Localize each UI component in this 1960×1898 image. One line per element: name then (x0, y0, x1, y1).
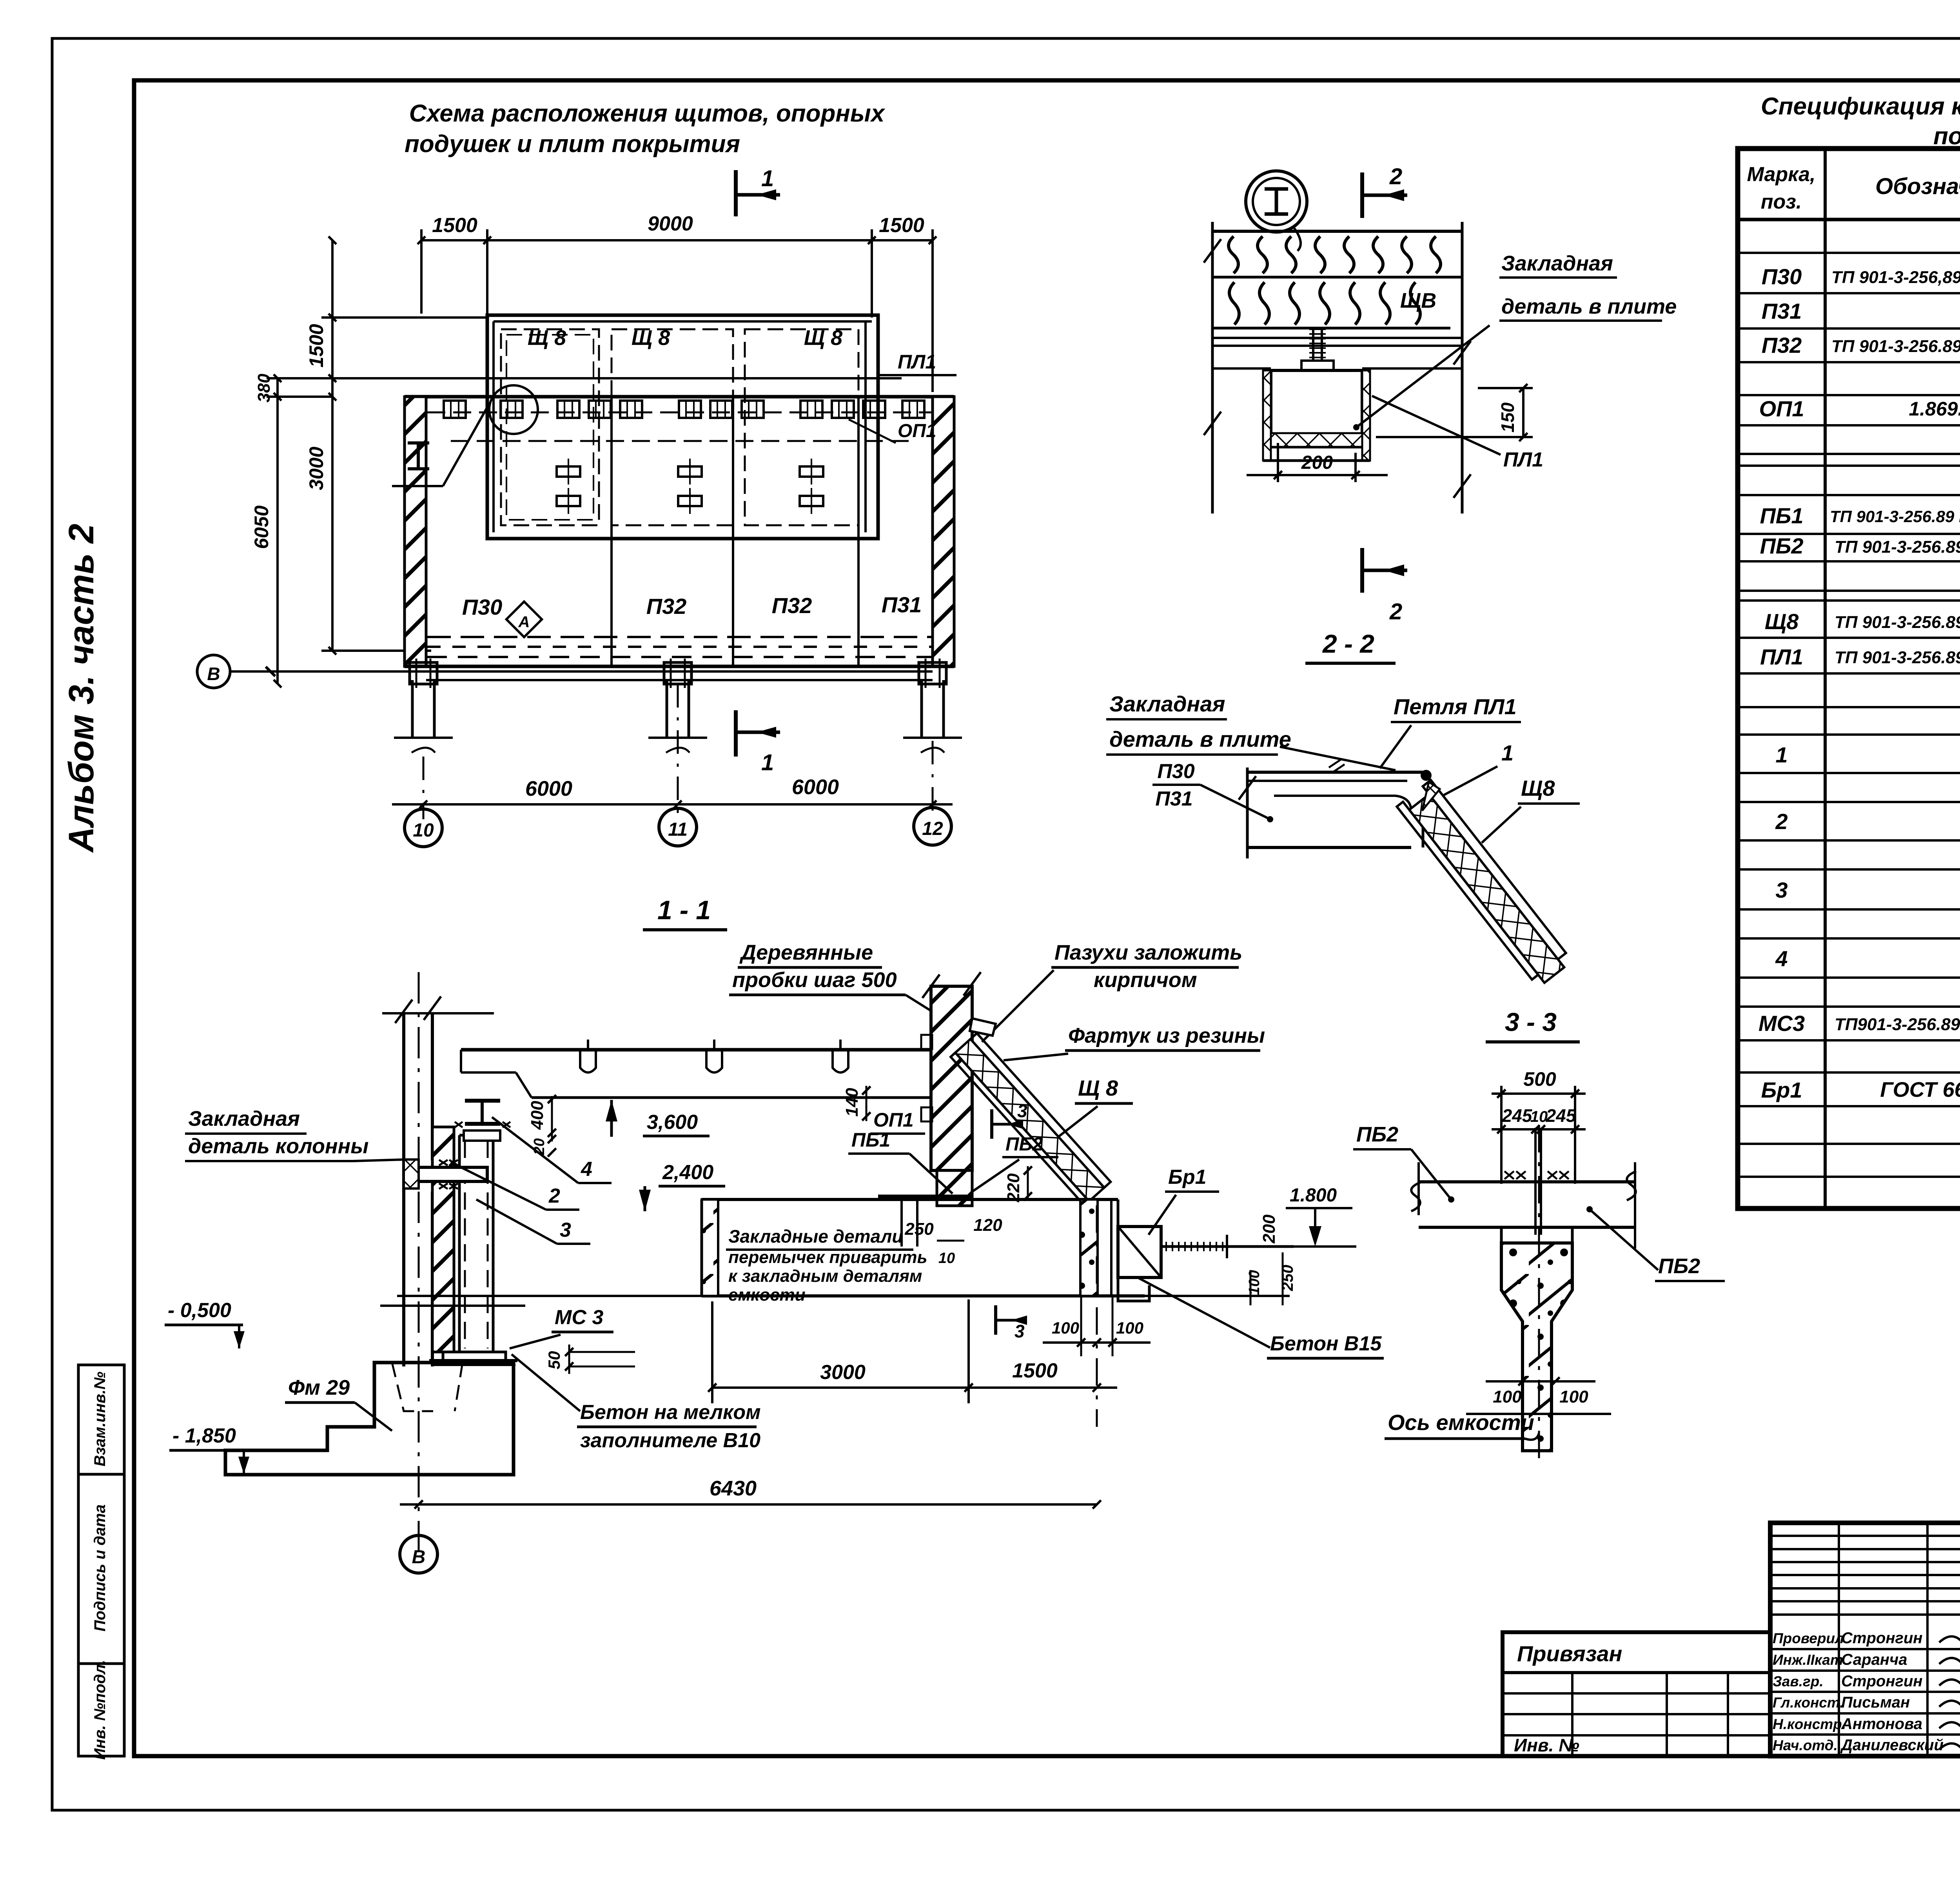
svg-text:100: 100 (1116, 1319, 1143, 1337)
detail I leader (1294, 227, 1301, 251)
svg-text:Фартук из резины: Фартук из резины (1068, 1024, 1265, 1047)
floor second line at column (380, 1305, 525, 1307)
3-3 column body (1501, 1243, 1572, 1451)
parapet top break (922, 974, 940, 998)
svg-text:1500: 1500 (879, 214, 924, 237)
svg-text:Взам.инв.№: Взам.инв.№ (91, 1372, 109, 1466)
svg-text:Стронгин: Стронгин (1841, 1673, 1922, 1690)
svg-text:Инв. №подл.: Инв. №подл. (91, 1660, 109, 1760)
3-3 slab break squiggles (1411, 1182, 1421, 1211)
seat plates on parapet (921, 1035, 932, 1049)
svg-text:Закладная: Закладная (1109, 691, 1225, 716)
svg-text:П32: П32 (772, 593, 812, 618)
svg-text:1.869.1-1: 1.869.1-1 (1909, 398, 1960, 420)
svg-text:100: 100 (1052, 1319, 1079, 1337)
tank top edge (405, 395, 954, 399)
detail I mark (408, 441, 429, 445)
curb bolt rod (1161, 1245, 1294, 1248)
svg-text:220: 220 (1004, 1173, 1023, 1203)
left margin stamp cells (78, 1365, 124, 1474)
svg-text:Инж.IIкат: Инж.IIкат (1773, 1652, 1843, 1668)
svg-text:10: 10 (938, 1250, 955, 1267)
shield panel 2 dashed (612, 329, 733, 525)
2-2 leader zakladnaya (1280, 747, 1396, 770)
svg-text:Схема расположения щитов,: Схема расположения щитов, опорных (409, 100, 886, 127)
svg-text:Гл.конст.: Гл.конст. (1773, 1695, 1844, 1711)
anchor clips on tank top (444, 401, 466, 418)
wood grain band 1 (1212, 276, 1462, 279)
svg-text:3: 3 (1014, 1321, 1025, 1341)
columns below tank (411, 680, 414, 737)
2-2 embed plate marks (1329, 760, 1341, 768)
svg-text:380: 380 (254, 374, 274, 403)
support cushion box (1271, 370, 1362, 447)
dim 200 (1277, 443, 1279, 482)
axis bubble 12 (914, 807, 951, 845)
svg-text:Спецификация к схеме распол: Спецификация к схеме расположения щитов,… (1761, 93, 1960, 120)
svg-text:200: 200 (1301, 452, 1333, 473)
tank slab end edges (701, 1199, 703, 1296)
svg-text:А: А (518, 613, 530, 631)
specification table grid (1738, 149, 1960, 1208)
dim 3000 1500 (712, 1386, 1117, 1389)
tank wall slab (702, 1198, 1118, 1201)
svg-text:поз.: поз. (1761, 191, 1802, 213)
svg-text:Щ 8: Щ 8 (1078, 1076, 1118, 1100)
roof beam left step (461, 1071, 516, 1074)
embedded column plate (418, 1167, 487, 1181)
svg-text:2,400: 2,400 (662, 1161, 713, 1184)
tank bottom dashed band (427, 636, 932, 638)
svg-text:П31: П31 (882, 592, 922, 617)
svg-text:Подпись и дата: Подпись и дата (91, 1504, 109, 1631)
svg-text:П32: П32 (1762, 333, 1802, 357)
svg-text:Саранча: Саранча (1841, 1651, 1907, 1668)
svg-text:перемычек приварить: перемычек приварить (728, 1248, 927, 1267)
svg-text:подушек и плит покрытия: подушек и плит покрытия (1933, 123, 1960, 150)
diamond mark A (506, 602, 542, 637)
axis B line (230, 670, 426, 673)
stoika element 3 (458, 1135, 461, 1352)
3-3 dim 100 100 (1486, 1380, 1595, 1383)
column end ticks (394, 737, 453, 739)
svg-text:6430: 6430 (710, 1477, 757, 1500)
privyazan block (1503, 1632, 1770, 1756)
bottom dim line (392, 803, 953, 806)
ground line (397, 1295, 1290, 1297)
svg-text:Альбом 3. часть 2: Альбом 3. часть 2 (62, 524, 101, 853)
column section symbols on axis line (410, 662, 437, 684)
svg-text:6000: 6000 (525, 777, 572, 800)
svg-text:деталь в плите: деталь в плите (1109, 727, 1291, 751)
svg-text:ПБ2: ПБ2 (1760, 533, 1803, 558)
svg-text:ПЛ1: ПЛ1 (1760, 644, 1803, 669)
svg-text:Бр1: Бр1 (1761, 1078, 1802, 1102)
svg-text:Щ 8: Щ 8 (632, 326, 670, 350)
svg-text:Щ 8: Щ 8 (528, 326, 566, 350)
parapet lower hatched pier (937, 1170, 972, 1206)
shield assembly outer box (487, 315, 878, 539)
svg-text:деталь в плите: деталь в плите (1501, 295, 1677, 318)
foundation socket dashed (392, 1363, 433, 1411)
svg-text:ГОСТ 6665-82: ГОСТ 6665-82 (1880, 1078, 1960, 1101)
svg-text:Щ8: Щ8 (1765, 609, 1799, 634)
svg-text:245: 245 (1502, 1105, 1533, 1126)
2-2 diagonal shield panel (1397, 780, 1572, 987)
svg-text:Ось емкости: Ось емкости (1388, 1410, 1534, 1435)
svg-text:деталь колонны: деталь колонны (188, 1134, 368, 1158)
dim 200 right (1283, 1208, 1284, 1247)
svg-text:ТП 901-3-256.89 КЖ.Н 71.000: ТП 901-3-256.89 КЖ.Н 71.000 (1835, 613, 1960, 632)
svg-text:Бетон на мелком: Бетон на мелком (580, 1401, 761, 1424)
svg-text:3: 3 (560, 1219, 571, 1241)
signature scrawls (1939, 1632, 1960, 1750)
svg-text:1: 1 (1501, 740, 1514, 765)
signature rows (1770, 1648, 1960, 1650)
curb lower bracket (1118, 1277, 1149, 1301)
svg-text:кирпичом: кирпичом (1094, 968, 1197, 992)
svg-text:ПБ2: ПБ2 (1005, 1134, 1043, 1155)
svg-text:2: 2 (1389, 599, 1402, 624)
column top break (395, 1000, 412, 1023)
roof beam bottom line (532, 1096, 931, 1099)
svg-text:Бетон В15: Бетон В15 (1270, 1332, 1382, 1355)
svg-text:ТП901-3-256.89 КЖ.Н 86.000: ТП901-3-256.89 КЖ.Н 86.000 (1835, 1015, 1960, 1034)
parapet hatched block (931, 986, 972, 1170)
svg-text:ТП 901-3-256,89 КЖ.Н 46.000: ТП 901-3-256,89 КЖ.Н 46.000 (1831, 268, 1960, 287)
apron flap (970, 1018, 996, 1036)
svg-text:120: 120 (973, 1216, 1002, 1235)
svg-text:10: 10 (1530, 1108, 1548, 1125)
svg-text:1500: 1500 (305, 324, 327, 367)
svg-text:9000: 9000 (648, 212, 693, 235)
axis B bubble (197, 655, 230, 688)
svg-text:3000: 3000 (305, 446, 327, 490)
svg-text:МС 3: МС 3 (555, 1306, 603, 1329)
svg-text:П32: П32 (646, 594, 687, 619)
svg-text:П30: П30 (1762, 264, 1802, 289)
svg-text:Проверил: Проверил (1773, 1630, 1844, 1646)
svg-text:подушек и плит покрытия: подушек и плит покрытия (405, 131, 740, 158)
title block outer (1770, 1523, 1960, 1756)
detail I bubble (1246, 171, 1307, 232)
svg-text:ТП 901-3-256.89 КЖ.Н 91.000: ТП 901-3-256.89 КЖ.Н 91.000 (1835, 648, 1960, 667)
svg-text:П31: П31 (1762, 299, 1802, 323)
svg-text:140: 140 (842, 1088, 862, 1117)
svg-text:2: 2 (1775, 809, 1788, 834)
svg-text:1: 1 (761, 750, 774, 775)
tank inner dashed top (427, 412, 933, 414)
svg-text:Щ8: Щ8 (1521, 776, 1555, 800)
dim 6430 (400, 1503, 1097, 1506)
left column shafts (402, 1013, 405, 1366)
svg-text:Марка,: Марка, (1747, 163, 1816, 186)
svg-text:1.800: 1.800 (1290, 1185, 1337, 1206)
roof rib hooks (580, 1050, 596, 1072)
svg-text:1: 1 (761, 166, 774, 191)
svg-text:- 1,850: - 1,850 (172, 1424, 236, 1447)
lintel seat plate (878, 1195, 972, 1198)
shield panel diagonal (951, 1033, 1111, 1205)
svg-text:50: 50 (545, 1351, 563, 1370)
3-3 slab (1419, 1180, 1635, 1183)
axis bubble 11 (659, 808, 697, 846)
svg-text:2: 2 (1389, 164, 1402, 189)
tank right wall hatched (933, 397, 954, 666)
thin deck lines (1212, 337, 1462, 339)
svg-text:100: 100 (1559, 1387, 1588, 1406)
svg-text:ТП 901-3-256.89 КЖ.Н 54.000-01: ТП 901-3-256.89 КЖ.Н 54.000-01 (1830, 507, 1960, 526)
section mark 1 bottom (734, 710, 738, 757)
3-3 bolt (1534, 1128, 1537, 1235)
svg-text:3,600: 3,600 (647, 1111, 698, 1134)
roof beam top line (461, 1048, 931, 1052)
svg-text:ПБ2: ПБ2 (1658, 1254, 1700, 1278)
detail I top line (1212, 230, 1462, 233)
svg-text:ПЛ1: ПЛ1 (1503, 448, 1543, 471)
svg-text:Деревянные: Деревянные (739, 941, 873, 964)
svg-text:1: 1 (1775, 742, 1788, 767)
curb block Br1 (1118, 1227, 1161, 1277)
svg-text:В: В (207, 664, 220, 684)
svg-text:150: 150 (1497, 402, 1518, 432)
shield panel 1 dashed (501, 329, 599, 525)
tank left wall hatched (405, 397, 426, 666)
svg-text:ОП1: ОП1 (873, 1109, 914, 1131)
svg-text:П31: П31 (1155, 788, 1192, 810)
svg-text:4: 4 (581, 1158, 592, 1181)
svg-text:Обозначение: Обозначение (1875, 174, 1960, 199)
svg-text:Антонова: Антонова (1841, 1715, 1922, 1733)
tank bottom edge (405, 665, 954, 668)
svg-text:В: В (412, 1547, 426, 1568)
svg-text:П30: П30 (462, 595, 503, 619)
section 3 flag bottom (994, 1305, 997, 1335)
3-3 column head plate (1501, 1227, 1572, 1243)
svg-text:3: 3 (1775, 878, 1788, 902)
svg-text:Данилевский: Данилевский (1840, 1737, 1944, 1754)
svg-text:2 - 2: 2 - 2 (1322, 629, 1374, 658)
svg-text:3: 3 (1017, 1101, 1027, 1121)
svg-text:3 - 3: 3 - 3 (1505, 1007, 1557, 1036)
left dim chain lines (331, 240, 334, 651)
svg-text:Закладная: Закладная (188, 1107, 300, 1130)
svg-text:1500: 1500 (432, 214, 477, 237)
svg-text:П30: П30 (1157, 760, 1194, 783)
axis B bubble bottom (400, 1535, 437, 1573)
section 3 flag top (990, 1109, 993, 1139)
svg-text:заполнителе В10: заполнителе В10 (580, 1429, 760, 1452)
svg-text:МС3: МС3 (1759, 1011, 1805, 1036)
I-beam detail 4 on column top (465, 1099, 500, 1103)
svg-text:4: 4 (1775, 946, 1788, 971)
cushion crosshatch bottom (1271, 433, 1362, 447)
svg-text:2: 2 (548, 1185, 560, 1207)
2-2 slab left break (1239, 776, 1256, 800)
axis bubble 10 (405, 809, 442, 847)
detail circle on clip (489, 385, 538, 434)
cushion pad under I-beam (464, 1130, 500, 1141)
svg-text:ОП1: ОП1 (1759, 396, 1804, 421)
svg-text:ПБ1: ПБ1 (1760, 503, 1803, 528)
section mark 2 bottom (1360, 548, 1364, 593)
lower beam lines (426, 670, 933, 673)
svg-text:6000: 6000 (792, 775, 839, 799)
svg-text:250: 250 (904, 1219, 934, 1239)
svg-text:ПБ1: ПБ1 (851, 1129, 890, 1151)
svg-text:ПБ2: ПБ2 (1356, 1123, 1398, 1146)
svg-text:Инв. №: Инв. № (1514, 1735, 1579, 1755)
svg-text:10: 10 (413, 820, 434, 841)
svg-text:6050: 6050 (250, 505, 272, 549)
svg-text:Петля ПЛ1: Петля ПЛ1 (1394, 694, 1517, 719)
svg-text:ТП 901-3-256.89 КЖ.Н 47.0.00: ТП 901-3-256.89 КЖ.Н 47.0.00 (1831, 337, 1960, 356)
dim 150 (1522, 388, 1524, 437)
svg-text:емкости: емкости (728, 1285, 806, 1305)
3-3 axis line (1538, 1125, 1540, 1462)
svg-text:12: 12 (922, 818, 943, 839)
svg-text:1500: 1500 (1012, 1359, 1058, 1382)
wood grain band 2 (1212, 327, 1450, 330)
2-2 slab (1246, 768, 1249, 858)
2-2 hinge dot (1421, 770, 1432, 781)
svg-text:Зав.гр.: Зав.гр. (1773, 1673, 1824, 1689)
svg-text:Стронгин: Стронгин (1841, 1629, 1922, 1647)
svg-text:Нач.отд.: Нач.отд. (1773, 1737, 1838, 1753)
svg-text:к закладным деталям: к закладным деталям (728, 1267, 922, 1286)
3-3 weld crosses on slab top (1504, 1171, 1514, 1179)
2-2 wedge between slab and panel (1422, 782, 1440, 811)
svg-text:- 0,500: - 0,500 (168, 1299, 231, 1322)
svg-text:1 - 1: 1 - 1 (657, 895, 711, 925)
svg-text:100: 100 (1246, 1270, 1263, 1295)
svg-text:100: 100 (1493, 1387, 1522, 1406)
column axis dash-dot (418, 972, 420, 1552)
svg-text:11: 11 (668, 819, 688, 840)
svg-text:400: 400 (528, 1101, 547, 1130)
svg-text:Н.констр.: Н.констр. (1773, 1716, 1846, 1732)
svg-text:ПЛ1: ПЛ1 (898, 351, 936, 373)
wall pilaster hatched (432, 1127, 454, 1352)
svg-text:Закладная: Закладная (1501, 252, 1613, 275)
top dimension line (421, 239, 933, 241)
svg-text:245: 245 (1546, 1105, 1577, 1126)
svg-text:Щ 8: Щ 8 (804, 326, 842, 350)
tank interior panel dividers (610, 397, 613, 666)
clip pairs inside tank (557, 466, 580, 477)
svg-text:Бр1: Бр1 (1168, 1166, 1207, 1189)
svg-text:200: 200 (1259, 1214, 1279, 1244)
detail I slab edges (1211, 222, 1214, 514)
leader to embed (1356, 325, 1490, 427)
svg-text:Привязан: Привязан (1517, 1641, 1622, 1666)
shield panel 3 dashed (745, 329, 858, 525)
detail I break marks (1204, 239, 1221, 263)
svg-text:Закладные детали: Закладные детали (728, 1226, 903, 1247)
svg-text:пробки шаг 500: пробки шаг 500 (732, 968, 897, 992)
svg-text:Письман: Письман (1841, 1694, 1910, 1711)
svg-text:ТП 901-3-256.89 КЖ.Н 54.000: ТП 901-3-256.89 КЖ.Н 54.000 (1835, 537, 1960, 557)
foundation outline (225, 1363, 514, 1475)
svg-text:ЩВ: ЩВ (1400, 289, 1436, 312)
svg-text:3000: 3000 (820, 1361, 866, 1384)
svg-text:Пазухи заложить: Пазухи заложить (1054, 941, 1242, 964)
svg-text:ОП1: ОП1 (898, 421, 936, 441)
anchor bolt (1312, 328, 1314, 361)
section mark 1 top (734, 170, 738, 216)
section mark 2 top (1360, 172, 1364, 218)
weld x marks (439, 1160, 448, 1165)
svg-text:Фм 29: Фм 29 (288, 1376, 350, 1399)
base plate MS3 (443, 1352, 506, 1361)
svg-text:500: 500 (1523, 1068, 1556, 1090)
title block upper small grid (1770, 1535, 1960, 1537)
